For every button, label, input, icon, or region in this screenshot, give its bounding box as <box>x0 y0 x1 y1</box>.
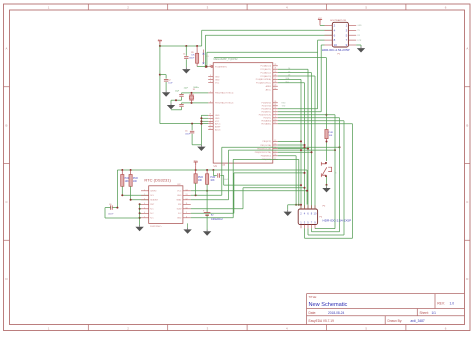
U1 right pins <box>255 64 291 161</box>
svg-text:Drawn By:: Drawn By: <box>388 319 403 323</box>
wire PB1 join <box>278 144 306 146</box>
svg-text:10K: 10K <box>125 181 130 183</box>
svg-text:26: 26 <box>274 74 276 76</box>
svg-text:9: 9 <box>186 212 187 214</box>
resistor R4 10K <box>129 170 138 200</box>
svg-text:REV:: REV: <box>437 301 445 305</box>
ground at P1 pin9 <box>356 45 365 53</box>
wire PB3 join <box>278 151 313 153</box>
wire SCL to RTC <box>121 194 148 196</box>
power flag VCC at P1 <box>318 18 325 25</box>
wire DTR upper net y=52.2 <box>207 52 318 65</box>
resistor R1 10K (reset pullup) <box>191 46 199 67</box>
svg-text:A: A <box>6 47 8 51</box>
svg-text:DS3231MZ+: DS3231MZ+ <box>150 226 163 228</box>
svg-text:100nF: 100nF <box>223 179 229 181</box>
svg-text:16: 16 <box>274 154 276 156</box>
capacitor C1 100nF (reset) <box>183 46 195 67</box>
crystal X1 16MHz <box>189 87 199 103</box>
connector P2 HDR-IDC-2.54-2X5P <box>298 206 351 225</box>
wire RTC VCC rail <box>117 169 307 205</box>
svg-text:PUR: PUR <box>329 132 334 134</box>
svg-text:GND: GND <box>215 118 220 120</box>
svg-text:21: 21 <box>209 114 211 116</box>
svg-text:New Schematic: New Schematic <box>309 302 348 308</box>
svg-text:B: B <box>466 123 468 127</box>
svg-text:8: 8 <box>186 216 187 218</box>
battery B1 CR1220 <box>203 191 223 230</box>
svg-text:SDA/INT: SDA/INT <box>150 199 159 202</box>
svg-text:5: 5 <box>210 78 211 80</box>
svg-text:100nF: 100nF <box>185 133 191 135</box>
svg-text:4: 4 <box>144 203 145 205</box>
svg-text:Date:: Date: <box>309 311 317 315</box>
svg-text:2: 2 <box>144 194 145 196</box>
wire SCL long net <box>191 146 341 196</box>
wire gnd pins chain <box>192 115 208 145</box>
svg-text:PC6(RESET): PC6(RESET) <box>215 66 227 68</box>
ground below C1 <box>182 67 190 73</box>
svg-text:GND: GND <box>215 76 220 78</box>
U1 left pins <box>208 65 233 131</box>
svg-text:5: 5 <box>210 117 211 119</box>
svg-text:PUR: PUR <box>198 177 203 179</box>
svg-text:GND: GND <box>215 115 220 117</box>
wire header pin10 to PD3 / reset resistor <box>278 45 325 112</box>
svg-text:C2: C2 <box>168 80 170 82</box>
svg-text:11: 11 <box>186 203 188 205</box>
svg-text:PD6(AIN0): PD6(AIN0) <box>261 120 271 123</box>
svg-text:PB3(MOSI/OC2A): PB3(MOSI/OC2A) <box>255 151 272 154</box>
svg-text:19: 19 <box>209 128 211 130</box>
svg-text:VCC: VCC <box>177 191 182 193</box>
wire VBAT row <box>191 190 308 192</box>
wire SDA long net <box>191 149 336 200</box>
capacitor C2 10uF <box>160 75 173 91</box>
svg-text:GND: GND <box>215 79 220 81</box>
svg-text:1/1: 1/1 <box>432 311 437 315</box>
svg-text:25: 25 <box>274 71 276 73</box>
wire PD6 loop net <box>278 121 344 235</box>
wire crystal gnd <box>171 99 182 110</box>
wire PB0 join <box>278 140 302 142</box>
svg-text:27: 27 <box>274 78 276 80</box>
svg-text:D: D <box>466 277 468 281</box>
wire button node <box>326 141 328 162</box>
svg-text:C10: C10 <box>222 164 225 166</box>
svg-text:✕: ✕ <box>202 52 205 56</box>
svg-text:10K: 10K <box>198 180 203 182</box>
svg-text:PUR: PUR <box>210 177 215 179</box>
svg-text:HDR-IDC-2.54-2X5P: HDR-IDC-2.54-2X5P <box>322 48 350 52</box>
wire RESET node <box>197 65 208 67</box>
svg-text:ADC6: ADC6 <box>215 128 221 131</box>
svg-text:BOOT/UART-2X5: BOOT/UART-2X5 <box>330 19 347 22</box>
wire SDA to RTC <box>130 199 149 201</box>
svg-text:DTR: DTR <box>357 40 362 42</box>
capacitor C7 100nF <box>213 164 228 185</box>
svg-text:1: 1 <box>144 189 145 191</box>
svg-text:PC2(ADC2): PC2(ADC2) <box>260 71 271 74</box>
svg-text:30: 30 <box>274 101 276 103</box>
svg-text:PC4(ADC4/SDA): PC4(ADC4/SDA) <box>256 78 272 81</box>
svg-text:10K: 10K <box>329 135 333 137</box>
svg-text:PD7(AIN1): PD7(AIN1) <box>261 123 271 126</box>
wire XTAL2 <box>182 102 209 104</box>
resistor R3 10K <box>121 170 130 195</box>
svg-text:D: D <box>5 277 7 281</box>
ground below S1 <box>322 185 330 193</box>
IC2 RTC DS3231 box <box>144 178 183 228</box>
svg-text:TITLE:: TITLE: <box>309 295 318 299</box>
svg-text:N.C: N.C <box>150 213 154 215</box>
svg-text:PB0(ICP): PB0(ICP) <box>263 141 272 143</box>
wire bus pin6 y=35.2 <box>205 35 332 66</box>
svg-text:TXD: TXD <box>282 106 286 108</box>
ground below C2 <box>162 91 170 97</box>
svg-text:PC3(ADC3): PC3(ADC3) <box>260 75 271 78</box>
svg-text:X1: X1 <box>193 89 195 91</box>
ground AVCC cap <box>197 145 205 151</box>
wire PD4 loop net <box>278 115 335 229</box>
wire VCC rail y=46 <box>159 44 202 47</box>
wire VCC drop to AVCC <box>159 46 208 125</box>
svg-text:C: C <box>5 200 7 204</box>
ground battery <box>203 230 211 236</box>
wire PB4 drop <box>278 156 297 206</box>
svg-text:GND: GND <box>177 218 182 220</box>
svg-text:10: 10 <box>334 43 338 47</box>
svg-text:ardi_3487: ardi_3487 <box>411 319 425 323</box>
wire 32K net <box>191 187 306 209</box>
svg-text:PC1(ADC1): PC1(ADC1) <box>260 68 271 71</box>
svg-text:R1: R1 <box>191 52 193 54</box>
svg-text:PB4(MISO): PB4(MISO) <box>261 156 272 158</box>
svg-text:8: 8 <box>210 101 211 103</box>
connector P1 HDR-IDC-2.54-2X5P <box>322 19 350 56</box>
svg-text:GND: GND <box>357 25 362 27</box>
svg-text:AVCC: AVCC <box>266 88 272 91</box>
svg-text:10: 10 <box>274 119 276 121</box>
resistor R5 <box>194 170 203 195</box>
wire PC1 to P2 <box>278 69 308 209</box>
svg-text:16MHz: 16MHz <box>193 87 199 89</box>
svg-text:PD5(T1): PD5(T1) <box>263 118 271 120</box>
svg-text:3: 3 <box>210 75 211 77</box>
svg-text:10K: 10K <box>133 181 138 183</box>
wire bus pin4 y=30.3 <box>202 30 333 46</box>
svg-text:PC0(ADC0): PC0(ADC0) <box>260 65 271 68</box>
svg-text:9: 9 <box>275 116 276 118</box>
svg-text:MEGA328P_TQFP32: MEGA328P_TQFP32 <box>214 58 239 61</box>
resistor R6 <box>206 170 216 192</box>
capacitor C4 22pF <box>179 88 188 110</box>
svg-text:CR1220-2: CR1220-2 <box>211 217 223 221</box>
svg-text:32KHZ: 32KHZ <box>150 191 157 193</box>
power flag VCC at RTC <box>194 161 199 171</box>
svg-text:IC2: IC2 <box>178 184 181 186</box>
wire PC3 to P2 <box>278 76 315 209</box>
wire PD7 loop net <box>278 124 353 238</box>
svg-text:3: 3 <box>144 198 145 200</box>
svg-text:20: 20 <box>274 85 276 87</box>
svg-text:SQW: SQW <box>177 209 182 211</box>
svg-text:EasyEDA V5.7.19: EasyEDA V5.7.19 <box>309 319 335 323</box>
svg-text:10: 10 <box>186 207 188 209</box>
wire PD5 loop net <box>278 118 340 232</box>
ground at P2 <box>284 204 303 216</box>
svg-text:C: C <box>466 200 468 204</box>
svg-text:12: 12 <box>274 140 276 142</box>
svg-text:GND: GND <box>177 195 182 197</box>
diode D1 (reset) <box>202 50 209 66</box>
IC2 pins <box>141 189 191 219</box>
svg-text:PC5(ADC5/SCL): PC5(ADC5/SCL) <box>256 82 271 85</box>
wire PC2 to P2 <box>278 73 312 209</box>
svg-text:31: 31 <box>274 104 276 106</box>
svg-text:VCC: VCC <box>215 83 220 85</box>
svg-text:N.C: N.C <box>178 213 182 215</box>
svg-text:PB6(XTAL1/TOSC1): PB6(XTAL1/TOSC1) <box>215 92 234 95</box>
svg-text:PD3(INT1): PD3(INT1) <box>261 112 271 114</box>
switch S1 (reset button) <box>321 162 336 186</box>
capacitor C5 100nF (AVCC) <box>185 124 194 145</box>
svg-text:N.C: N.C <box>150 218 154 220</box>
svg-text:RTC (DS3231): RTC (DS3231) <box>144 178 171 183</box>
P2 pins <box>300 205 317 228</box>
svg-text:2018-08-24: 2018-08-24 <box>328 311 345 315</box>
wire header pin8 to PD2 <box>278 40 325 109</box>
svg-text:10K: 10K <box>210 180 215 182</box>
svg-text:13: 13 <box>186 194 188 196</box>
svg-text:23: 23 <box>274 64 276 66</box>
svg-text:PD1(TXD): PD1(TXD) <box>262 106 272 108</box>
svg-text:24: 24 <box>274 68 276 70</box>
wire PB2 join <box>278 148 309 150</box>
IC U1 MCU ATMEGA328 box <box>213 58 273 168</box>
svg-text:14: 14 <box>186 189 188 191</box>
svg-text:5: 5 <box>144 207 145 209</box>
svg-text:PD4(T0/XCK): PD4(T0/XCK) <box>259 115 272 117</box>
ground RTC left <box>135 225 143 231</box>
svg-text:4: 4 <box>210 81 211 83</box>
wire PC5 to P2 <box>278 83 305 209</box>
wire C7 net <box>224 184 302 186</box>
capacitor C6 100nF (RTC) <box>105 170 140 218</box>
svg-text:Sheet:: Sheet: <box>420 311 429 315</box>
svg-text:7: 7 <box>144 216 145 218</box>
svg-text:RXD: RXD <box>282 103 287 105</box>
svg-text:32: 32 <box>274 107 276 109</box>
wire reset upper net y=57.6 <box>214 58 328 130</box>
svg-text:N.C: N.C <box>150 209 154 211</box>
svg-text:PB1(OC1A): PB1(OC1A) <box>260 144 271 147</box>
ground crystal <box>167 103 175 109</box>
svg-text:HDR-IDC-2.54-2X5P: HDR-IDC-2.54-2X5P <box>323 218 352 222</box>
P1 pins <box>325 24 363 48</box>
svg-text:12: 12 <box>186 198 188 200</box>
svg-text:6: 6 <box>144 212 145 214</box>
svg-text:AREF: AREF <box>266 85 272 88</box>
svg-text:1.0: 1.0 <box>450 301 455 305</box>
wire RTC NC chain <box>139 203 141 225</box>
svg-text:A: A <box>466 47 468 51</box>
svg-text:C5: C5 <box>185 130 187 132</box>
wire PC4 to P2 <box>278 79 301 209</box>
capacitor C3 22pF <box>175 90 184 100</box>
wire PB5/SCK net (crosses IC symbol) <box>191 159 300 217</box>
power flag VCC (top left) <box>158 39 163 44</box>
svg-text:PB7(XTAL2/TOSC2): PB7(XTAL2/TOSC2) <box>215 102 234 105</box>
svg-text:2: 2 <box>275 113 276 115</box>
svg-text:7: 7 <box>210 91 211 93</box>
svg-text:AREF: AREF <box>215 125 221 128</box>
svg-text:✕: ✕ <box>202 62 205 66</box>
svg-text:1: 1 <box>275 110 276 112</box>
svg-text:13: 13 <box>274 143 276 145</box>
wire SQW net <box>191 172 306 213</box>
svg-text:B: B <box>6 123 8 127</box>
svg-text:PD2(INT0): PD2(INT0) <box>261 109 271 111</box>
svg-text:100nF: 100nF <box>189 58 195 60</box>
title block <box>307 294 465 325</box>
wire XTAL1 <box>182 92 209 94</box>
svg-text:PUR: PUR <box>133 178 138 180</box>
svg-text:15: 15 <box>274 151 276 153</box>
ground RTC below IC <box>183 223 191 233</box>
svg-text:20: 20 <box>209 125 211 127</box>
svg-text:C6: C6 <box>109 204 111 206</box>
resistor R2 10K (reset net) <box>325 130 334 142</box>
svg-text:PD0(RXD): PD0(RXD) <box>262 103 272 105</box>
svg-text:AVCC: AVCC <box>215 122 221 125</box>
svg-text:18: 18 <box>274 88 276 90</box>
svg-text:C1: C1 <box>183 53 185 55</box>
svg-text:18: 18 <box>209 122 211 124</box>
svg-text:11: 11 <box>274 122 276 124</box>
svg-text:28: 28 <box>274 81 276 83</box>
svg-text:100nF: 100nF <box>108 214 114 216</box>
svg-text:VBAT: VBAT <box>176 199 182 202</box>
